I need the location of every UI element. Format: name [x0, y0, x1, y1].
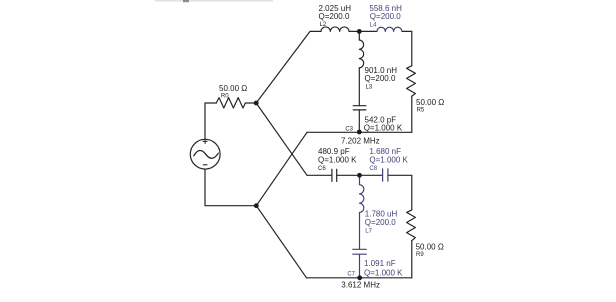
resistor R5 zigzag [407, 66, 416, 96]
junction dot bottom rail C7 [357, 275, 362, 280]
wire C7 to bottom rail [359, 254, 361, 278]
capacitor C6 plates [332, 169, 337, 181]
svg-text:Q=1.000 K: Q=1.000 K [364, 269, 403, 278]
svg-text:50.00 Ω: 50.00 Ω [219, 84, 247, 93]
wire R0 to node J1 [245, 102, 256, 104]
wire L4 to right corner, down to R5 [402, 31, 412, 65]
wire J1 diagonal up to top rail and L2 [256, 31, 321, 103]
svg-text:L7: L7 [365, 229, 372, 235]
svg-text:3.612 MHz: 3.612 MHz [341, 281, 380, 290]
svg-text:1.091 nF: 1.091 nF [364, 259, 396, 268]
wire C3 to mid rail [358, 110, 360, 132]
wire R5 to mid rail [411, 96, 413, 132]
wire R9 to bottom rail [411, 241, 413, 278]
svg-text:C6: C6 [318, 166, 326, 172]
junction dot top rail [357, 29, 362, 34]
svg-text:Q=200.0: Q=200.0 [370, 12, 401, 21]
AC source sine wave [194, 150, 219, 158]
wire C6 to lower node [337, 174, 383, 176]
junction dot J1 [254, 101, 259, 106]
svg-text:Q=200.0: Q=200.0 [365, 74, 396, 83]
svg-text:L3: L3 [366, 85, 373, 91]
svg-text:Q=1.000 K: Q=1.000 K [318, 156, 357, 165]
inductor L3 [359, 40, 363, 68]
junction dot lower rail [357, 173, 362, 178]
svg-text:Q=200.0: Q=200.0 [365, 218, 396, 227]
mid rail 7.202 MHz [307, 131, 412, 133]
svg-text:Q=1.000 K: Q=1.000 K [364, 124, 403, 133]
inductor L4 [377, 27, 402, 31]
wire lower node to L7 [359, 175, 361, 184]
svg-text:R5: R5 [417, 108, 425, 114]
svg-text:R9: R9 [416, 252, 424, 258]
wire J2 diagonal up to mid rail [256, 132, 307, 205]
junction dot mid rail C3 [357, 130, 362, 135]
inductor L2 [321, 27, 349, 31]
svg-text:C3: C3 [345, 127, 353, 133]
svg-text:C7: C7 [347, 272, 355, 278]
svg-text:Q=200.0: Q=200.0 [319, 12, 350, 21]
svg-text:R0: R0 [221, 94, 229, 100]
svg-text:Q=1.000 K: Q=1.000 K [369, 156, 408, 165]
svg-text:50.00 Ω: 50.00 Ω [416, 243, 444, 252]
AC source minus sign [203, 164, 208, 166]
resistor R9 zigzag [407, 210, 416, 241]
capacitor C8 plates [383, 169, 388, 181]
AC source plus sign [203, 139, 208, 144]
wire L7 to C7 [359, 213, 361, 250]
wire top node down to L3 [358, 31, 360, 40]
bottom rail 3.612 MHz [307, 277, 412, 279]
wire C8 to right corner down to R9 [388, 175, 412, 210]
wire J2 diagonal down to bottom rail [256, 206, 306, 278]
svg-text:L4: L4 [370, 22, 377, 28]
lower mid rail left segment [307, 174, 332, 176]
wire source bottom to J2 [205, 169, 256, 206]
junction dot J2 [254, 203, 259, 208]
inductor L7 [360, 185, 364, 213]
svg-text:L2: L2 [320, 22, 327, 28]
resistor R0 zigzag [216, 98, 245, 108]
capacitor C3 plates [353, 106, 366, 110]
svg-text:C8: C8 [369, 166, 377, 172]
cropped text ghost at top edge [155, 0, 273, 2]
wire source top to R0 [205, 103, 216, 139]
AC source V1 circle [190, 139, 220, 169]
wire L3 to C3 [358, 68, 360, 106]
capacitor C7 plates [353, 249, 367, 254]
wire J1 diagonal down to lower rail [256, 103, 307, 175]
svg-text:7.202 MHz: 7.202 MHz [341, 136, 380, 145]
svg-text:50.00 Ω: 50.00 Ω [416, 98, 444, 107]
wire L2 to top node [349, 30, 377, 32]
